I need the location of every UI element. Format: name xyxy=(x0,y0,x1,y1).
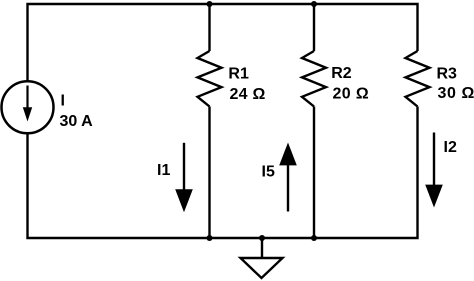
svg-text:R3: R3 xyxy=(437,66,458,83)
svg-text:I5: I5 xyxy=(262,164,275,181)
svg-text:24 Ω: 24 Ω xyxy=(230,86,266,103)
svg-text:30 A: 30 A xyxy=(60,113,94,130)
svg-text:I2: I2 xyxy=(444,139,457,156)
svg-text:I: I xyxy=(61,93,65,110)
svg-text:I1: I1 xyxy=(157,162,170,179)
svg-text:R2: R2 xyxy=(331,65,352,82)
svg-text:20 Ω: 20 Ω xyxy=(333,86,369,103)
svg-text:R1: R1 xyxy=(228,66,249,83)
svg-text:30 Ω: 30 Ω xyxy=(438,85,474,102)
